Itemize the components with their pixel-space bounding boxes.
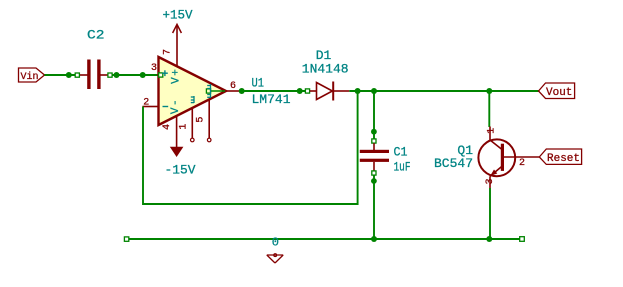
svg-text:Reset: Reset [547,153,580,165]
junction [297,88,303,94]
node Vout (global label flag) [539,83,575,99]
svg-text:U1: U1 [252,76,265,91]
wire ground rail [127,238,520,240]
wire Q1 collector branch [488,91,490,127]
wire end marker right [520,237,525,242]
svg-text:+15V: +15V [162,9,193,23]
power symbol -15V [165,147,196,178]
svg-text:0: 0 [272,236,279,250]
svg-text:C1: C1 [394,145,408,160]
wire Q1 emitter to ground rail [489,188,491,239]
svg-text:3: 3 [151,63,157,74]
svg-text:1: 1 [487,128,498,134]
junction [66,72,72,78]
wire feedback from pin 2 [143,91,358,204]
junction [355,88,361,94]
junction [239,88,245,94]
junction [371,236,377,242]
svg-text:V+: V+ [171,68,183,84]
U1 pin 3 (+ input) [151,63,168,77]
svg-text:LM741: LM741 [252,92,291,107]
junction [371,88,377,94]
U1 pin 4 (V-) [162,116,176,147]
svg-text:5: 5 [196,117,207,123]
junction [371,178,377,184]
U1 pin 7 (V+) [163,25,178,67]
svg-text:2: 2 [519,158,525,169]
svg-text:2: 2 [143,98,149,109]
svg-text:3: 3 [485,178,496,184]
svg-text:7: 7 [163,49,174,55]
diode D1 [305,82,349,101]
svg-text:Vin: Vin [21,71,39,83]
wire op-amp output to D1 [241,90,306,92]
svg-text:V-: V- [170,98,182,114]
wire C2 to op-amp pin 3 [112,74,159,76]
capacitor C2 [75,60,112,90]
junction [486,88,492,94]
junction [371,129,377,135]
U1 pin 6 (output) [206,81,241,93]
junction [114,72,120,78]
node Reset (global label flag) [539,149,581,165]
svg-text:BC547: BC547 [434,156,473,171]
ground [267,254,283,263]
op-amp U1 body [159,57,227,125]
junction [486,236,492,242]
U1 pin 2 (- input) [143,98,169,109]
svg-text:C2: C2 [87,28,105,43]
node Vin (global label flag) [19,68,45,83]
svg-text:-15V: -15V [165,163,196,178]
capacitor C1 [360,139,389,175]
U1 pin 1 (offset null) [179,96,195,142]
svg-text:1uF: 1uF [394,160,411,175]
U1 pin 5 (offset null) [196,84,211,142]
transistor Q1 [478,127,539,189]
junction [140,72,146,78]
svg-text:4: 4 [162,124,173,130]
svg-text:1: 1 [179,124,190,130]
svg-text:6: 6 [230,81,236,92]
wire D1 to Vout [349,90,538,92]
svg-text:Vout: Vout [546,87,572,99]
wire end marker left [124,237,128,241]
power symbol +15V [162,9,193,34]
svg-text:1N4148: 1N4148 [302,62,349,77]
wire C1 branch top [373,91,375,140]
wire C1 bottom to ground rail [373,175,375,239]
wire Vin to C2 [45,74,77,76]
